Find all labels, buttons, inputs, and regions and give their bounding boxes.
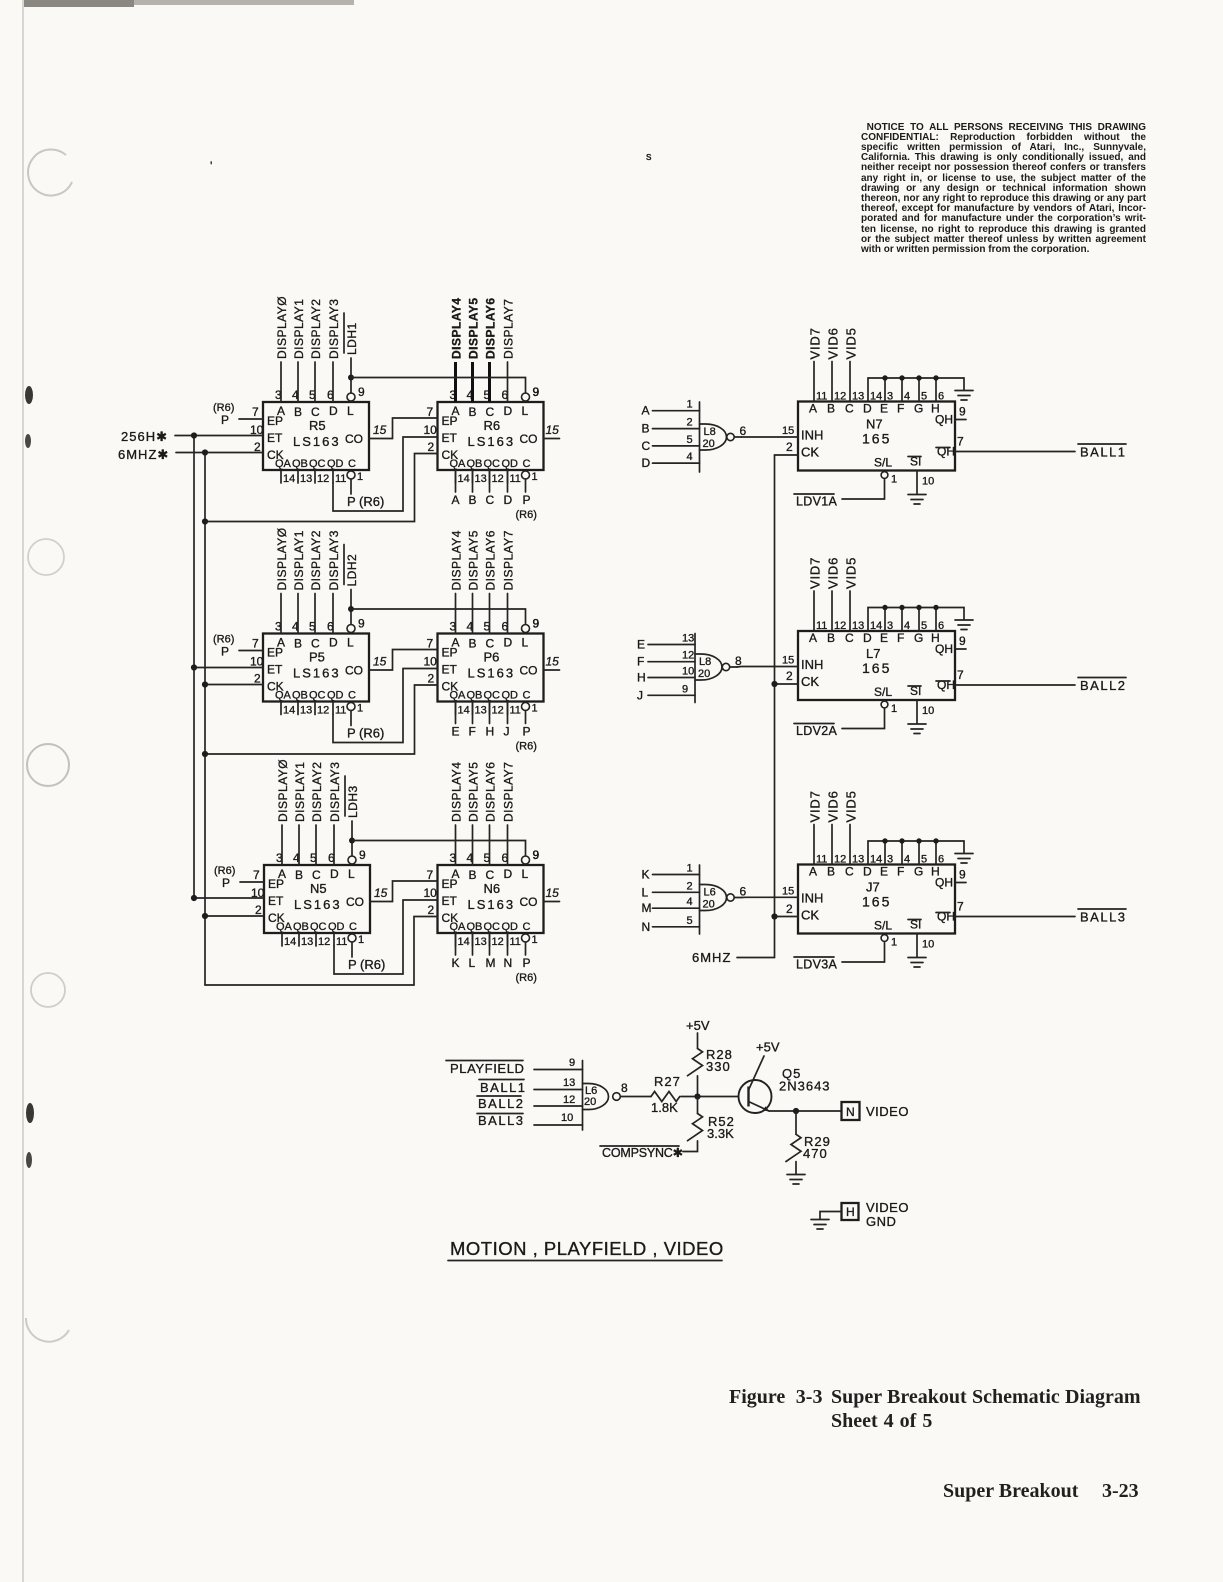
CO stub right counter row 3 (544, 886, 560, 902)
svg-text:2: 2 (254, 672, 261, 686)
svg-text:M: M (642, 901, 652, 915)
net P(R6) under left counter row 2 (333, 669, 438, 743)
svg-text:15: 15 (373, 423, 387, 437)
net label DISPLAY4 (P6 pin 3) (450, 530, 464, 633)
svg-text:DISPLAY7: DISPLAY7 (502, 530, 516, 590)
svg-text:14: 14 (458, 473, 470, 485)
svg-text:BALL2: BALL2 (1080, 678, 1127, 693)
svg-text:EP: EP (268, 877, 284, 891)
svg-text:13: 13 (300, 473, 312, 485)
svg-text:9: 9 (569, 1057, 575, 1069)
net LDV3A to S/L (794, 943, 885, 972)
svg-text:1: 1 (891, 937, 897, 949)
svg-text:7: 7 (253, 868, 260, 882)
svg-text:LS163: LS163 (468, 434, 516, 449)
svg-text:CO: CO (520, 895, 538, 909)
ground (SI pin 10 of L7) (908, 700, 934, 734)
svg-text:R6: R6 (484, 418, 501, 433)
wire Q5 emitter to VIDEO (769, 1108, 842, 1114)
net label DISPLAY3 (N5 pin 6) (328, 762, 342, 865)
svg-text:11: 11 (510, 705, 521, 717)
svg-text:N: N (504, 956, 513, 970)
svg-text:CK: CK (801, 445, 819, 460)
svg-text:3: 3 (887, 391, 893, 403)
svg-text:CO: CO (520, 432, 538, 446)
net PLAYFIELD input (446, 1057, 583, 1076)
svg-text:BALL2: BALL2 (478, 1096, 525, 1111)
svg-text:VID6: VID6 (826, 557, 841, 589)
svg-text:1: 1 (357, 703, 363, 715)
net label DISPLAY2 (N5 pin 5) (310, 762, 324, 865)
svg-text:12: 12 (318, 936, 330, 948)
svg-text:2: 2 (786, 902, 793, 916)
svg-text:LS163: LS163 (468, 897, 516, 912)
ground (SI pin 10 of J7) (908, 934, 934, 968)
svg-text:470: 470 (803, 1146, 828, 1161)
svg-text:C: C (486, 637, 495, 651)
svg-text:12: 12 (563, 1094, 575, 1106)
connector pin N : VIDEO (842, 1102, 909, 1120)
net label DISPLAY7 (R6 pin 6) (502, 299, 516, 402)
svg-text:14: 14 (283, 705, 295, 717)
svg-text:LDH1: LDH1 (345, 322, 359, 355)
svg-text:P (R6): P (R6) (347, 726, 384, 741)
svg-text:165: 165 (862, 660, 891, 676)
svg-text:QC: QC (484, 458, 501, 470)
svg-text:INH: INH (801, 428, 823, 443)
svg-text:VID7: VID7 (808, 557, 823, 589)
svg-text:11: 11 (335, 473, 346, 485)
svg-text:DISPLAY2: DISPLAY2 (310, 762, 324, 822)
svg-text:11: 11 (510, 936, 521, 948)
title MOTION, PLAYFIELD, VIDEO (448, 1238, 724, 1261)
svg-text:QB: QB (467, 458, 483, 470)
svg-text:N: N (642, 920, 651, 934)
svg-text:L: L (348, 867, 355, 881)
svg-text:6MHZ: 6MHZ (692, 950, 731, 965)
svg-text:LDH3: LDH3 (346, 785, 360, 818)
pin labels 10, 2 row 3 (251, 868, 437, 917)
svg-text:L8: L8 (699, 656, 711, 668)
svg-text:LDV3A: LDV3A (796, 958, 837, 972)
svg-text:330: 330 (706, 1059, 731, 1074)
net LDV1A to S/L (794, 480, 885, 509)
svg-text:M: M (486, 956, 496, 970)
shift register N7 (165) (798, 391, 955, 486)
svg-text:VID5: VID5 (844, 327, 859, 359)
svg-text:5: 5 (921, 854, 927, 866)
svg-text:CO: CO (346, 895, 364, 909)
svg-text:QA: QA (275, 690, 292, 702)
svg-text:P6: P6 (484, 650, 500, 665)
svg-text:13: 13 (475, 705, 487, 717)
svg-text:P: P (523, 956, 531, 970)
svg-text:P: P (221, 413, 229, 427)
net label DISPLAY3 (P5 pin 6) (327, 530, 341, 633)
svg-text:QC: QC (309, 690, 326, 702)
svg-text:COMPSYNC✱: COMPSYNC✱ (602, 1146, 684, 1160)
svg-text:VIDEO: VIDEO (866, 1200, 909, 1215)
svg-text:QD: QD (327, 690, 344, 702)
svg-text:4: 4 (904, 391, 910, 403)
svg-text:LS163: LS163 (468, 666, 516, 681)
svg-text:QA: QA (450, 921, 467, 933)
QH pin 9 stub of J7 (955, 868, 966, 883)
svg-text:ET: ET (442, 663, 458, 677)
svg-text:4: 4 (687, 451, 693, 463)
svg-text:2: 2 (428, 672, 435, 686)
confidential notice text (861, 123, 1146, 256)
svg-text:10: 10 (424, 655, 438, 669)
ground (pull bus of L7) (955, 620, 973, 630)
svg-text:2: 2 (687, 880, 693, 892)
svg-text:G: G (914, 865, 923, 879)
output letters under R6 (452, 470, 537, 521)
svg-text:+5V: +5V (686, 1018, 710, 1033)
wire CO row 1 left to EP right (369, 418, 438, 439)
figure caption (729, 1386, 822, 1409)
svg-text:CO: CO (345, 664, 363, 678)
wire 6MHZ to P5.CK (202, 681, 263, 687)
svg-text:9: 9 (533, 617, 540, 631)
svg-text:J7: J7 (866, 880, 880, 895)
svg-text:2: 2 (687, 417, 693, 429)
net P (R6) to EP of left counter row 3 (214, 865, 264, 890)
svg-text:N: N (846, 1105, 855, 1119)
bus: pins D,E,F,G,H of L7 tied to ground (868, 605, 964, 631)
svg-text:ET: ET (442, 894, 458, 908)
svg-text:6: 6 (938, 620, 944, 632)
wire 6MHZ to N6.CK (205, 917, 438, 986)
svg-text:15: 15 (373, 655, 387, 669)
svg-text:QH: QH (937, 910, 955, 924)
svg-text:QH: QH (935, 413, 953, 427)
svg-text:E: E (880, 631, 888, 645)
net label DISPLAY1 (N5 pin 4) (293, 762, 307, 865)
svg-text:GND: GND (866, 1214, 896, 1229)
svg-text:15: 15 (782, 655, 794, 667)
counter P5 (LS163) (263, 617, 369, 717)
net label DISPLAY6 (R6 pin 5) (484, 297, 498, 402)
svg-text:ET: ET (442, 431, 458, 445)
pin labels 10, 2 row 1 (250, 405, 437, 454)
net label LDH2 (P5 pin 9, load) (344, 545, 359, 625)
net COMPSYNC* (600, 1141, 698, 1160)
net label DISPLAY5 (P6 pin 4) (467, 530, 481, 633)
net label DISPLAY7 (P6 pin 6) (502, 530, 516, 633)
svg-text:C: C (523, 921, 531, 933)
svg-text:D: D (329, 404, 338, 418)
svg-text:F: F (897, 402, 904, 416)
svg-text:QH: QH (937, 445, 955, 459)
svg-text:QD: QD (502, 458, 519, 470)
svg-text:P: P (523, 493, 531, 507)
net label DISPLAY5 (R6 pin 4) (467, 297, 481, 402)
svg-text:10: 10 (922, 705, 934, 717)
svg-text:7: 7 (427, 868, 434, 882)
svg-text:8: 8 (621, 1081, 628, 1095)
svg-text:QC: QC (309, 458, 326, 470)
svg-text:': ' (210, 159, 212, 173)
svg-text:13: 13 (475, 936, 487, 948)
svg-text:DISPLAY6: DISPLAY6 (484, 530, 498, 590)
net LDV2A to S/L (794, 709, 885, 738)
net label VID7 (J7) (808, 790, 823, 864)
svg-text:B: B (294, 637, 302, 651)
net label DISPLAY6 (P6 pin 5) (484, 530, 498, 633)
svg-text:EP: EP (442, 646, 458, 660)
net label VID7 (L7) (808, 557, 823, 631)
svg-text:E: E (880, 402, 888, 416)
pin labels 10, 2 row 2 (250, 637, 437, 686)
svg-text:F: F (637, 655, 644, 669)
net label LDH1 (R5 pin 9, load) (344, 313, 359, 393)
svg-text:H: H (846, 1205, 855, 1219)
svg-text:20: 20 (703, 899, 715, 911)
svg-text:QB: QB (293, 921, 309, 933)
svg-text:DISPLAY6: DISPLAY6 (484, 297, 498, 359)
net label DISPLAY&#216; (P5 pin 3) (275, 527, 289, 633)
svg-text:H: H (486, 725, 495, 739)
svg-text:14: 14 (283, 473, 295, 485)
svg-text:13: 13 (852, 391, 864, 403)
svg-text:1: 1 (532, 471, 538, 483)
output letters under P6 (452, 702, 537, 753)
NAND gate L8/20 (642, 399, 799, 472)
net label DISPLAY3 (R5 pin 6) (327, 299, 341, 402)
wire LDH3 to N6 pin 9 (349, 838, 540, 863)
ground (pull bus of N7) (955, 391, 973, 401)
svg-text:L: L (522, 636, 529, 650)
svg-text:14: 14 (870, 854, 882, 866)
net label DISPLAY&#216; (N5 pin 3) (276, 759, 290, 865)
net BALL3 input (477, 1112, 583, 1128)
net label DISPLAY&#216; (R5 pin 3) (275, 296, 289, 402)
svg-text:1: 1 (687, 863, 693, 875)
svg-text:A: A (809, 631, 817, 645)
svg-text:E: E (452, 725, 460, 739)
svg-text:QA: QA (276, 921, 293, 933)
wire LDH1 to R6 pin 9 (348, 375, 540, 400)
svg-text:6: 6 (740, 885, 747, 899)
svg-text:11: 11 (336, 936, 347, 948)
svg-text:DISPLAY5: DISPLAY5 (467, 297, 481, 359)
wire 256H* rail (175, 432, 263, 898)
svg-text:B: B (469, 868, 477, 882)
svg-text:D: D (863, 865, 872, 879)
net BALL2 output (955, 668, 1127, 693)
counter N6 (LS163) (438, 848, 544, 948)
svg-text:DISPLAY3: DISPLAY3 (327, 530, 341, 590)
svg-text:EP: EP (267, 414, 283, 428)
svg-text:S/L: S/L (874, 456, 892, 470)
svg-text:D: D (504, 493, 513, 507)
svg-text:LDV2A: LDV2A (796, 724, 837, 738)
svg-text:2: 2 (428, 440, 435, 454)
svg-text:QB: QB (467, 921, 483, 933)
svg-text:13: 13 (852, 620, 864, 632)
net P(R6) under left counter row 1 (333, 437, 438, 511)
svg-text:12: 12 (682, 650, 694, 662)
svg-text:13: 13 (301, 936, 313, 948)
svg-text:9: 9 (682, 683, 688, 695)
svg-text:P: P (222, 876, 230, 890)
svg-text:L: L (522, 867, 529, 881)
svg-text:DISPLAY5: DISPLAY5 (467, 762, 481, 822)
svg-text:QB: QB (292, 458, 308, 470)
wire LDH2 to P6 pin 9 (348, 606, 540, 631)
svg-text:QH: QH (937, 678, 955, 692)
counter R6 (LS163) (438, 385, 544, 485)
svg-text:DISPLAY3: DISPLAY3 (327, 299, 341, 359)
svg-text:DISPLAY4: DISPLAY4 (450, 530, 464, 590)
bus: pins D,E,F,G,H of N7 tied to ground (868, 375, 964, 401)
svg-text:(R6): (R6) (516, 509, 537, 521)
net label DISPLAY4 (R6 pin 3) (450, 297, 464, 402)
svg-text:L8: L8 (704, 426, 716, 438)
svg-text:7: 7 (957, 435, 964, 449)
svg-text:EP: EP (267, 646, 283, 660)
wire 6MHZ* rail (176, 449, 263, 985)
svg-text:14: 14 (870, 391, 882, 403)
svg-text:1: 1 (891, 703, 897, 715)
svg-text:9: 9 (959, 634, 966, 648)
svg-text:1: 1 (532, 703, 538, 715)
svg-text:J: J (637, 688, 643, 702)
svg-text:EP: EP (442, 414, 458, 428)
net label VID7 (N7) (808, 327, 823, 401)
svg-text:10: 10 (922, 939, 934, 951)
svg-text:F: F (469, 725, 476, 739)
svg-text:14: 14 (458, 936, 470, 948)
svg-text:9: 9 (533, 848, 540, 862)
svg-text:D: D (504, 636, 513, 650)
svg-text:165: 165 (862, 431, 891, 447)
svg-text:7: 7 (427, 405, 434, 419)
svg-text:12: 12 (834, 854, 846, 866)
svg-text:5: 5 (921, 620, 927, 632)
svg-text:10: 10 (424, 423, 438, 437)
svg-text:CK: CK (801, 674, 819, 689)
svg-text:2N3643: 2N3643 (779, 1079, 831, 1094)
svg-text:QD: QD (502, 921, 519, 933)
svg-text:7: 7 (427, 637, 434, 651)
svg-text:QD: QD (327, 458, 344, 470)
svg-text:1: 1 (891, 474, 897, 486)
svg-text:A: A (642, 404, 650, 418)
svg-text:L6: L6 (704, 887, 716, 899)
svg-text:3: 3 (887, 620, 893, 632)
svg-text:1.8K: 1.8K (651, 1100, 678, 1115)
svg-text:BALL1: BALL1 (1080, 445, 1127, 460)
svg-text:6MHZ✱: 6MHZ✱ (118, 447, 169, 462)
svg-text:9: 9 (533, 385, 540, 399)
svg-text:3: 3 (887, 854, 893, 866)
svg-text:A: A (809, 402, 817, 416)
svg-text:QB: QB (467, 690, 483, 702)
svg-text:+5V: +5V (756, 1040, 780, 1055)
svg-text:R5: R5 (309, 418, 326, 433)
+5V at Q5 collector (756, 1040, 780, 1055)
svg-text:5: 5 (687, 915, 693, 927)
svg-text:QC: QC (484, 690, 501, 702)
svg-text:C: C (845, 402, 854, 416)
svg-text:20: 20 (703, 438, 715, 450)
svg-text:LDH2: LDH2 (345, 554, 359, 587)
svg-text:QC: QC (484, 921, 501, 933)
svg-text:ET: ET (267, 663, 283, 677)
svg-text:C: C (311, 405, 320, 419)
svg-text:LS163: LS163 (293, 666, 341, 681)
CO stub right counter row 1 (544, 423, 560, 439)
svg-text:N6: N6 (484, 881, 501, 896)
svg-text:10: 10 (250, 423, 264, 437)
svg-text:D: D (863, 402, 872, 416)
svg-text:165: 165 (862, 894, 891, 910)
svg-text:VID7: VID7 (808, 790, 823, 822)
svg-text:K: K (642, 868, 650, 882)
svg-text:6: 6 (938, 391, 944, 403)
svg-text:5: 5 (687, 434, 693, 446)
svg-text:MOTION , PLAYFIELD , VIDEO: MOTION , PLAYFIELD , VIDEO (450, 1238, 724, 1259)
svg-text:12: 12 (834, 620, 846, 632)
svg-text:QC: QC (310, 921, 327, 933)
svg-text:E: E (880, 865, 888, 879)
svg-text:4: 4 (687, 896, 693, 908)
ground (R29) (787, 1175, 805, 1185)
svg-text:11: 11 (510, 473, 521, 485)
svg-text:DISPLAY6: DISPLAY6 (484, 762, 498, 822)
svg-text:C: C (523, 690, 531, 702)
svg-text:11: 11 (335, 705, 346, 717)
net BALL1 output (955, 435, 1127, 460)
svg-text:256H✱: 256H✱ (121, 429, 168, 444)
NAND gate L6/20 (video mix) (583, 1061, 652, 1131)
net label VID6 (L7) (826, 557, 841, 631)
svg-text:VID6: VID6 (826, 327, 841, 359)
svg-text:QB: QB (292, 690, 308, 702)
svg-text:10: 10 (251, 886, 265, 900)
svg-text:E: E (637, 638, 645, 652)
svg-text:QA: QA (450, 458, 467, 470)
svg-text:20: 20 (698, 668, 710, 680)
svg-text:7: 7 (957, 900, 964, 914)
net label DISPLAY7 (N6 pin 6) (502, 762, 516, 865)
NAND gate L6/20 (642, 863, 799, 935)
+5V to R28 (686, 1018, 710, 1049)
svg-text:ET: ET (268, 894, 284, 908)
QH pin 9 stub of L7 (955, 634, 966, 649)
wire CO row 2 left to EP right (369, 650, 438, 671)
svg-text:12: 12 (317, 705, 329, 717)
svg-text:LS163: LS163 (294, 897, 342, 912)
svg-text:F: F (897, 865, 904, 879)
resistor R29 470 (786, 1111, 831, 1174)
svg-text:15: 15 (374, 886, 388, 900)
svg-text:QA: QA (275, 458, 292, 470)
net label DISPLAY5 (N6 pin 4) (467, 762, 481, 865)
svg-text:1: 1 (687, 399, 693, 411)
resistor R28 330 (688, 1047, 733, 1093)
svg-text:A: A (809, 865, 817, 879)
page footer (943, 1480, 1078, 1503)
svg-text:1: 1 (358, 934, 364, 946)
wire 6MHZ to P6.CK (202, 685, 438, 757)
svg-text:2: 2 (786, 669, 793, 683)
svg-text:7: 7 (957, 668, 964, 682)
svg-text:P5: P5 (309, 650, 325, 665)
svg-text:C: C (349, 921, 357, 933)
